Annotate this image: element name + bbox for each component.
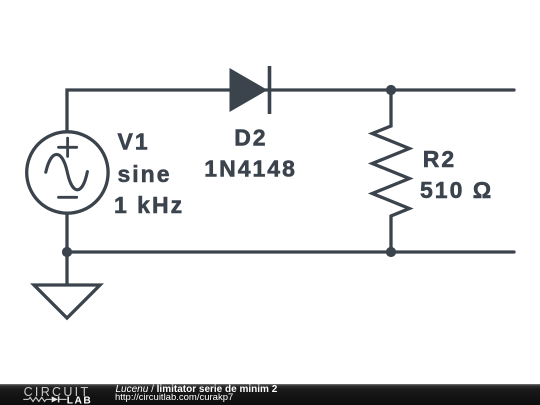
svg-text:510 Ω: 510 Ω xyxy=(420,177,493,203)
logo doodle diode triangle xyxy=(52,396,58,402)
wire source bottom lead xyxy=(65,214,68,252)
wire ground lead xyxy=(65,252,68,285)
node dot at source ground junction xyxy=(62,247,72,257)
plus sign of V1 xyxy=(59,138,77,156)
wire bottom rail xyxy=(67,250,514,253)
sine wave inside V1 xyxy=(46,154,88,189)
node dot bottom at resistor xyxy=(386,247,396,257)
svg-text:D2: D2 xyxy=(234,124,267,150)
ground symbol xyxy=(34,285,100,318)
diode D2 triangle xyxy=(230,68,268,112)
logo doodle wire left xyxy=(23,398,28,400)
footer bar xyxy=(0,384,540,405)
logo doodle diode bar xyxy=(58,396,60,402)
logo doodle resistor xyxy=(29,397,46,401)
svg-text:sine: sine xyxy=(118,161,172,187)
svg-text:1 kHz: 1 kHz xyxy=(114,192,184,218)
resistor R2 zigzag xyxy=(372,90,409,252)
CircuitLab logo xyxy=(0,384,110,405)
logo doodle wire mid xyxy=(46,398,52,400)
wire top rail from source corner to right end xyxy=(67,90,514,131)
node dot top at resistor xyxy=(386,85,396,95)
minus sign of V1 xyxy=(59,196,77,199)
diode D2 cathode bar xyxy=(268,66,272,114)
svg-text:LAB: LAB xyxy=(67,396,92,405)
svg-text:1N4148: 1N4148 xyxy=(204,156,297,182)
svg-text:R2: R2 xyxy=(423,146,456,172)
voltage source V1 circle xyxy=(27,132,108,213)
svg-text:V1: V1 xyxy=(118,129,150,155)
logo doodle wire right xyxy=(59,398,67,400)
